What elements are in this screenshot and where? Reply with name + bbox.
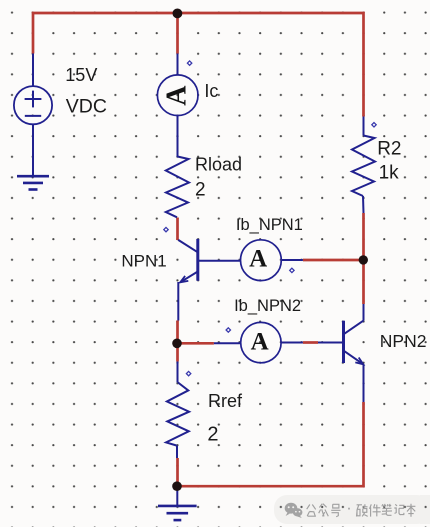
svg-text:NPN1: NPN1 — [121, 252, 166, 271]
svg-text:Rref: Rref — [208, 391, 243, 411]
svg-text:A: A — [249, 246, 267, 273]
svg-text:Ic: Ic — [204, 81, 218, 101]
svg-text:A: A — [251, 329, 269, 356]
svg-text:2: 2 — [207, 423, 218, 445]
svg-text:A: A — [162, 85, 193, 106]
svg-text:Ib_NPN2: Ib_NPN2 — [234, 297, 301, 315]
svg-text:Ib_NPN1: Ib_NPN1 — [236, 216, 303, 234]
svg-text:15V: 15V — [65, 65, 97, 85]
svg-text:VDC: VDC — [66, 95, 107, 117]
svg-text:1k: 1k — [379, 163, 400, 184]
svg-text:2: 2 — [195, 180, 206, 201]
svg-text:R2: R2 — [377, 139, 401, 160]
svg-text:Rload: Rload — [195, 155, 242, 175]
svg-text:NPN2: NPN2 — [380, 331, 427, 351]
